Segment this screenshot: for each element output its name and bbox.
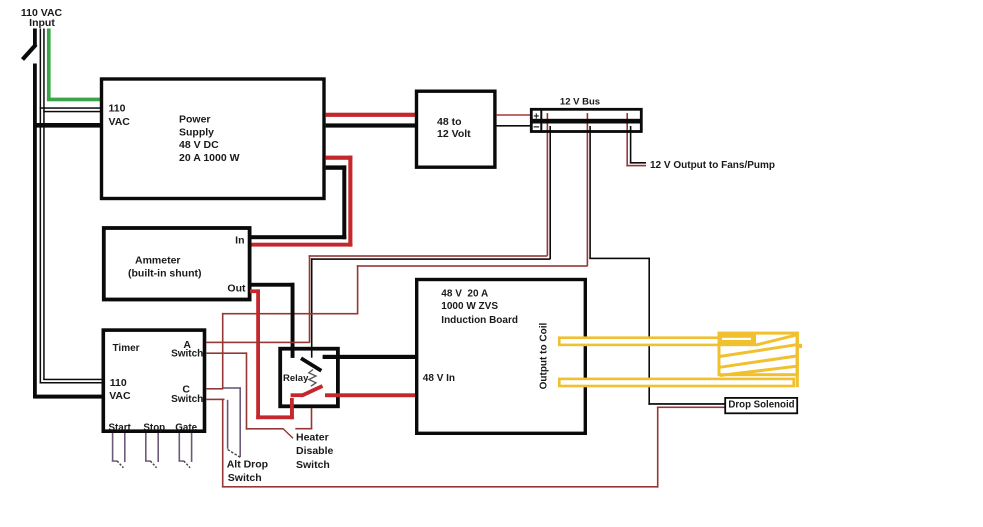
- relay red arm: [302, 386, 323, 396]
- wire pair1 red horizontal: [309, 255, 548, 257]
- svg-text:VAC: VAC: [109, 116, 131, 128]
- svg-text:48 V DC: 48 V DC: [179, 139, 219, 151]
- wire drop solenoid black horizontal to label: [648, 403, 725, 405]
- wire bus black column 1: [549, 126, 551, 259]
- svg-text:In: In: [235, 235, 244, 247]
- wire black ammeter out into relay top: [291, 347, 295, 358]
- svg-text:Stop: Stop: [143, 422, 165, 433]
- converter U2 48 to 12 Volt box: [417, 91, 495, 167]
- wire bus black column 2: [589, 126, 591, 259]
- wire purple alt drop right lead: [239, 387, 241, 457]
- svg-text:Switch: Switch: [296, 459, 330, 471]
- wire red up into relay bottom: [290, 393, 294, 419]
- wire red PSU to ammeter vertical: [348, 156, 352, 247]
- timer U3 box: [103, 330, 204, 433]
- wire bottom red horizontal to solenoid: [222, 486, 659, 488]
- wire bus black column 3: [630, 126, 632, 164]
- coil L1 bottom bar: [559, 379, 793, 386]
- wire red bottom horizontal to relay: [256, 415, 294, 419]
- relay coil zigzag: [309, 370, 316, 387]
- switch S1 input disconnect blade: [23, 29, 37, 60]
- svg-text:Power: Power: [179, 114, 211, 126]
- svg-text:20 A 1000 W: 20 A 1000 W: [179, 152, 240, 164]
- wire bus red column 2: [587, 113, 589, 266]
- svg-text:Out: Out: [227, 282, 246, 294]
- wire red relay to induction board: [325, 393, 417, 397]
- wire hot into timer: [34, 395, 102, 399]
- wire pair2 black horizontal: [589, 258, 650, 260]
- wire ground green horizontal to power supply: [47, 98, 101, 102]
- wire black return converter: [326, 123, 415, 127]
- wire neutral branch a to power supply: [40, 107, 101, 109]
- svg-text:(built-in shunt): (built-in shunt): [128, 267, 201, 279]
- wire black relay to induction board: [323, 355, 417, 359]
- relay black arm: [301, 358, 321, 371]
- wire red ammeter out horizontal: [250, 289, 260, 293]
- wire A switch lead 1: [206, 342, 309, 344]
- svg-text:VAC: VAC: [109, 390, 131, 402]
- wire heater disable lead from A switch: [246, 352, 248, 429]
- svg-text:Drop Solenoid: Drop Solenoid: [728, 400, 794, 411]
- wire thin black converter to bus: [496, 125, 530, 127]
- wire neutral branch b to power supply: [43, 111, 100, 113]
- svg-text:Timer: Timer: [113, 343, 140, 354]
- node Heater Disable Switch label: [296, 432, 334, 471]
- node Alt Drop Switch label: [227, 459, 268, 484]
- wire black ammeter out vertical to relay: [291, 283, 295, 358]
- switch alt drop blade: [228, 450, 241, 458]
- svg-text:Disable: Disable: [296, 445, 334, 457]
- wire red 48V to converter: [326, 113, 415, 117]
- wire pair1 black into relay: [311, 347, 313, 358]
- wire red into ammeter In: [252, 243, 353, 247]
- svg-text:Heater: Heater: [296, 432, 329, 444]
- wire pair1 black vertical into relay: [311, 258, 313, 357]
- svg-text:110: 110: [109, 103, 126, 115]
- svg-text:12 V Output to Fans/Pump: 12 V Output to Fans/Pump: [650, 160, 775, 171]
- wire neutral branch a to timer: [43, 379, 102, 381]
- svg-text:12 Volt: 12 Volt: [437, 128, 471, 140]
- wire pair3 black to fans output: [630, 162, 646, 164]
- wire C switch lead 1: [206, 388, 223, 390]
- svg-text:Ammeter: Ammeter: [135, 254, 181, 266]
- wire C switch out vertical long: [222, 399, 224, 488]
- wire red ammeter out vertical: [256, 289, 260, 419]
- ammeter M1 box: [104, 228, 250, 300]
- wire pair2 red vertical to C switch: [222, 313, 224, 389]
- wire purple alt drop branch horizontal: [223, 387, 241, 389]
- svg-text:1000 W ZVS: 1000 W ZVS: [441, 301, 498, 312]
- wire neutral thin line 2: [43, 29, 45, 380]
- svg-text:Input: Input: [29, 17, 55, 29]
- svg-text:Switch: Switch: [228, 472, 262, 484]
- wire drop solenoid black vertical: [648, 258, 650, 405]
- wire thin red converter to bus: [496, 114, 530, 116]
- wire pair3 red to fans output: [626, 165, 646, 167]
- wire black PSU to ammeter horizontal: [326, 165, 347, 169]
- svg-text:48 V 20 A: 48 V 20 A: [441, 288, 488, 299]
- wire hot 110VAC vertical: [33, 64, 37, 399]
- wire pair1 black horizontal: [311, 258, 550, 260]
- svg-text:−: −: [533, 122, 539, 134]
- wire pair2 red horizontal upper: [357, 265, 588, 267]
- wire black into ammeter In: [252, 235, 347, 239]
- coil L1 top bar: [559, 338, 754, 345]
- wire solenoid red horizontal to label: [657, 407, 725, 409]
- wire ground green vertical: [47, 29, 51, 100]
- svg-text:Start: Start: [109, 422, 132, 433]
- svg-text:Supply: Supply: [179, 126, 214, 138]
- wire C switch lead 2: [206, 399, 224, 401]
- svg-text:Gate: Gate: [175, 422, 197, 433]
- wire neutral thin line 1: [40, 29, 42, 384]
- wire solenoid red vertical: [657, 407, 659, 488]
- wire red into relay from bottom: [290, 398, 294, 419]
- node 110 VAC Input label: [21, 7, 63, 29]
- svg-text:Switch: Switch: [171, 394, 203, 405]
- switch Start contacts: [112, 433, 126, 468]
- wire hot branch to power supply: [34, 123, 100, 128]
- induction board U4 box: [417, 280, 586, 434]
- svg-text:Switch: Switch: [171, 348, 203, 359]
- svg-text:Alt Drop: Alt Drop: [227, 459, 268, 471]
- wire heater disable horizontal: [246, 428, 284, 430]
- wire pair2 red vertical mid: [357, 265, 359, 314]
- wire pair1 red vertical to A switch: [309, 255, 311, 343]
- wire red PSU to ammeter horizontal: [326, 156, 353, 160]
- relay K1 box: [280, 349, 338, 407]
- switch heater disable blade: [283, 429, 293, 438]
- switch Gate contacts: [179, 433, 193, 468]
- coil L1 body: [718, 332, 802, 388]
- wire black PSU to ammeter vertical: [342, 165, 346, 239]
- svg-text:110: 110: [110, 377, 127, 389]
- power supply U1 box: [102, 79, 325, 199]
- wire heater disable lead from relay: [311, 408, 313, 429]
- svg-text:Output to Coil: Output to Coil: [539, 323, 550, 390]
- svg-text:48 to: 48 to: [437, 116, 462, 128]
- svg-text:Relay: Relay: [283, 373, 309, 384]
- wire neutral branch b to timer: [40, 382, 103, 384]
- svg-text:12 V Bus: 12 V Bus: [560, 96, 600, 107]
- wire heater disable stub: [295, 428, 312, 430]
- 12 V bus bar block: [531, 108, 641, 134]
- relay red stub: [291, 393, 303, 397]
- svg-text:48 V In: 48 V In: [423, 373, 455, 384]
- node Drop Solenoid label box: [725, 398, 797, 413]
- wire A switch lead 2: [206, 352, 247, 354]
- wire bus red column 3: [626, 113, 628, 166]
- wire bus red column 1: [547, 113, 549, 256]
- svg-text:Induction Board: Induction Board: [441, 315, 518, 326]
- wire pair2 red horizontal mid: [222, 313, 359, 315]
- wire purple alt drop left lead: [227, 400, 229, 449]
- wire black ammeter out horizontal: [252, 283, 295, 287]
- switch Stop contacts: [145, 433, 159, 468]
